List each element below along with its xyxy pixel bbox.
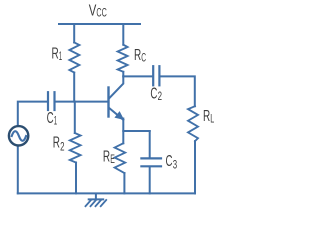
svg-text:C: C [141,50,146,64]
wire RC top stub [122,24,124,45]
svg-text:2: 2 [60,139,64,153]
wire collector node to C2 [123,75,152,77]
svg-text:R: R [134,47,141,64]
svg-text:R: R [103,148,110,165]
wire emitter node rail to C3 [123,130,149,132]
capacitor C1 [48,92,55,110]
AC source V1 [9,126,28,145]
ground rail (bottom) [18,192,195,194]
transistor Q1 [109,76,124,119]
VCC supply rail [59,23,140,25]
label C1 [47,110,58,128]
svg-text:R: R [203,108,210,125]
capacitor C2 [153,66,159,85]
svg-text:R: R [53,135,60,152]
label C3 [166,153,178,172]
svg-text:L: L [210,112,214,126]
wire R1 bottom lead [73,73,75,102]
resistor R2 [74,102,76,133]
svg-text:E: E [110,152,115,166]
svg-text:CC: CC [96,5,107,19]
wire C2 to RL branch [161,76,195,106]
label RC [134,47,146,65]
resistor RC [118,45,128,72]
label RL [203,108,215,126]
wire R2 bottom lead [75,163,77,194]
svg-text:1: 1 [59,49,62,63]
resistor RL [188,106,198,141]
wire RE bottom lead [123,173,125,193]
wire emitter down through node to RE [122,119,124,144]
svg-text:R: R [52,46,59,63]
wire source bottom lead [17,146,19,194]
svg-text:3: 3 [173,158,178,172]
label C2 [150,85,162,103]
label R1 [52,46,63,64]
wire input corner from source to C1 [18,102,47,126]
label VCC [89,3,107,20]
capacitor C3 [141,131,161,193]
svg-text:C: C [166,153,173,170]
wire base wire C1 to transistor [56,101,108,103]
svg-text:2: 2 [158,89,162,103]
wire RC bottom lead to collector node [122,72,124,77]
svg-text:1: 1 [54,113,57,127]
resistor RE [115,143,126,173]
resistor R1 [69,43,79,73]
wire RL bottom lead [194,141,196,193]
svg-text:C: C [150,85,157,102]
wire R1 top stub [73,24,75,43]
label R2 [53,135,65,154]
label RE [103,148,115,166]
svg-text:C: C [47,110,54,127]
ground [86,194,107,206]
